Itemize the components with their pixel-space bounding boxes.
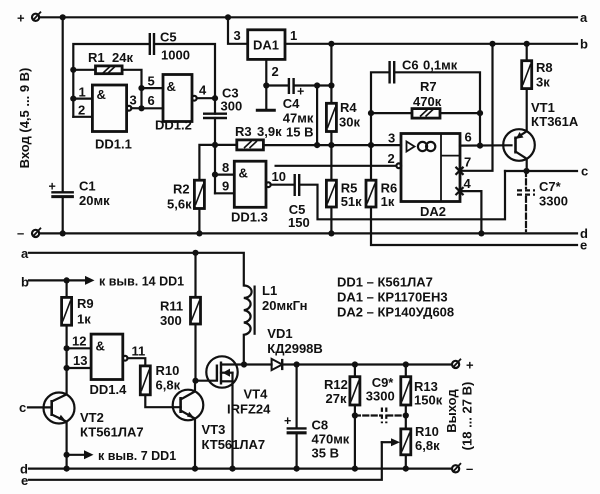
svg-text:30к: 30к — [339, 115, 360, 130]
diode VD1 KD2998V — [244, 326, 323, 370]
svg-text:КТ561ЛА7: КТ561ЛА7 — [80, 425, 144, 440]
svg-text:R10: R10 — [415, 424, 439, 439]
capacitor C1 20mk — [49, 179, 111, 209]
node rail label b (bottom left) — [21, 275, 29, 290]
wire: R9 bottom to pin12 node — [64, 325, 70, 351]
svg-text:+: + — [466, 357, 474, 372]
svg-text:R2: R2 — [173, 182, 190, 197]
wire: pin1 into DD1.1 — [73, 85, 92, 100]
svg-text:&: & — [167, 79, 176, 94]
svg-text:47мк: 47мк — [283, 111, 314, 126]
wire: L1 bottom to VT4 drain node — [241, 335, 247, 368]
wire: C5(150) right, down and across to rail c riser — [300, 171, 505, 219]
svg-text:a: a — [21, 246, 29, 261]
svg-text:к выв. 7 DD1: к выв. 7 DD1 — [98, 449, 176, 463]
svg-text:DD1.2: DD1.2 — [155, 118, 192, 133]
pin 2 input bubble of DA2 — [388, 151, 402, 168]
pin 10 output bubble of DD1.3 — [266, 169, 286, 187]
resistor R13 150k — [401, 365, 443, 408]
svg-text:C4: C4 — [283, 96, 300, 111]
svg-text:20мкГн: 20мкГн — [262, 298, 307, 313]
wire: VD1 cathode to plus output line — [282, 361, 452, 367]
svg-text:R1: R1 — [88, 50, 105, 65]
pin 11 output bubble of DD1.4 — [123, 344, 146, 361]
wire: VT3 collector up to gate node — [194, 381, 196, 392]
svg-text:C1: C1 — [79, 179, 96, 194]
wire: pin2 into DD1.1 — [73, 103, 92, 118]
wire: C4 right to divider node — [294, 82, 334, 88]
wire: R11 bottom to VT4 gate node — [192, 324, 198, 384]
svg-text:КД2998В: КД2998В — [267, 341, 323, 356]
svg-text:150: 150 — [288, 215, 310, 230]
svg-text:1: 1 — [290, 28, 297, 43]
resistor R8 3k — [522, 41, 553, 90]
svg-text:R9: R9 — [77, 296, 94, 311]
svg-text:VT2: VT2 — [80, 410, 104, 425]
svg-text:VT4: VT4 — [244, 387, 269, 402]
svg-text:VT3: VT3 — [202, 422, 226, 437]
transistor VT1 KT361A — [503, 100, 579, 161]
label output voltage — [444, 382, 475, 451]
transistor VT2 KT561LA7 — [44, 393, 144, 440]
wire: DD1.3 out to C5(150) — [271, 184, 294, 186]
svg-text:1000: 1000 — [161, 48, 190, 63]
transistor VT3 KT561LA7 — [173, 390, 265, 452]
capacitor C3 300 — [203, 86, 242, 119]
svg-text:6: 6 — [465, 130, 472, 145]
wire: DA1 pin2 down — [263, 59, 279, 88]
svg-text:27к: 27к — [326, 391, 347, 406]
svg-text:2: 2 — [388, 151, 395, 166]
svg-text:C7*: C7* — [539, 179, 562, 194]
op-amp DA2 — [401, 134, 460, 220]
node rail label d (top right) — [580, 226, 588, 241]
svg-text:9: 9 — [222, 179, 229, 194]
node junction DD1.1 pin1 — [70, 96, 76, 102]
resistor R6 1k — [366, 145, 397, 209]
pin 4 output bubble of DD1.2 — [192, 83, 207, 101]
node junction on plus rail at left bus — [60, 14, 66, 20]
svg-text:к выв. 14 DD1: к выв. 14 DD1 — [99, 275, 184, 289]
svg-text:DA1 – КР1170ЕН3: DA1 – КР1170ЕН3 — [337, 290, 448, 305]
capacitor C4 47mk 15V — [266, 78, 314, 140]
svg-text:C6: C6 — [402, 58, 419, 73]
svg-text:2: 2 — [272, 64, 279, 79]
resistor R2 5,6k — [167, 180, 204, 211]
svg-text:b: b — [580, 37, 588, 52]
svg-text:R11: R11 — [160, 299, 183, 314]
wire: VT2 emitter down — [64, 422, 70, 472]
label parts list DA1 — [337, 290, 448, 305]
wire: R10 bottom to rail d — [403, 455, 409, 472]
svg-text:DA1: DA1 — [253, 38, 279, 53]
svg-text:7: 7 — [464, 155, 471, 170]
logic gate DD1.4 — [90, 334, 128, 397]
svg-text:Выход: Выход — [444, 389, 459, 433]
wire: pin13 into DD1.4 — [64, 348, 92, 371]
svg-text:DD1.3: DD1.3 — [231, 210, 268, 225]
wire: R1 right to DD1.2 inputs — [122, 70, 141, 109]
svg-text:51к: 51к — [341, 194, 362, 209]
wire: VT2 collector up to pin13 node — [65, 368, 67, 394]
wire: pin5 into DD1.2 — [142, 74, 164, 89]
label parts list DD1 — [337, 275, 433, 290]
svg-text:Вход (4,5 ... 9 В): Вход (4,5 ... 9 В) — [17, 68, 32, 169]
svg-text:4: 4 — [464, 176, 472, 191]
svg-text:20мк: 20мк — [79, 193, 110, 208]
wire: DA2 pin7 up to rail b — [461, 41, 496, 171]
logic gate DD1.1 — [92, 85, 131, 152]
svg-text:35 В: 35 В — [312, 446, 339, 461]
svg-text:24к: 24к — [112, 50, 133, 65]
pin 3 output bubble of DD1.1 — [127, 93, 137, 111]
svg-text:R8: R8 — [536, 60, 553, 75]
svg-text:+: + — [49, 180, 56, 194]
svg-text:15 В: 15 В — [286, 125, 313, 140]
output terminal minus — [452, 461, 473, 476]
resistor R11 300 — [160, 253, 201, 328]
label parts list DA2 — [337, 305, 454, 320]
svg-text:3: 3 — [130, 93, 137, 108]
wire: C1 bottom to minus rail — [60, 197, 66, 237]
svg-text:300: 300 — [221, 99, 243, 114]
resistor R10 6,8k (trimmer) — [401, 424, 440, 455]
wire: DA2 pin2 line — [276, 165, 397, 167]
wire: R10 bottom to VT3 base — [145, 395, 180, 407]
node rail label b (top right) — [580, 37, 588, 52]
wire: plus rail a (top) — [39, 16, 577, 18]
node rail label e (top right) — [580, 238, 587, 253]
svg-text:DA2 – КР140УД608: DA2 – КР140УД608 — [337, 305, 454, 320]
wire: gate node to VT4 gate — [196, 380, 217, 382]
resistor R3 3,9k — [215, 124, 282, 150]
label input voltage — [17, 68, 32, 169]
regulator DA1 — [248, 30, 285, 60]
node rail label e (bottom left) — [21, 473, 28, 488]
wire: rail c (top) — [505, 168, 577, 174]
wire: pin9 into DD1.3 — [215, 179, 234, 194]
svg-text:R3: R3 — [235, 124, 252, 139]
svg-text:3: 3 — [234, 28, 241, 43]
svg-text:1к: 1к — [77, 312, 91, 327]
svg-text:10: 10 — [272, 169, 286, 184]
resistor R4 30k — [326, 86, 360, 132]
svg-text:11: 11 — [132, 344, 146, 359]
svg-text:c: c — [19, 400, 26, 415]
wire: DD1.4 out to R10 top — [128, 358, 146, 366]
svg-text:R12: R12 — [324, 377, 348, 392]
transistor VT4 IRFZ24 — [206, 356, 271, 416]
wire: C3 bottom to R3/R2 node — [212, 118, 218, 148]
inductor L1 20mkGn — [244, 283, 308, 335]
capacitor C5 150 — [288, 174, 310, 230]
svg-text:(18 ... 27 В): (18 ... 27 В) — [460, 382, 475, 451]
wire: DD1.2 out to C3 node — [197, 95, 218, 101]
wire: C6 loop right vertical — [395, 72, 483, 148]
svg-text:a: a — [580, 10, 588, 25]
svg-text:DD1.1: DD1.1 — [95, 137, 132, 152]
svg-text:&: & — [96, 339, 105, 354]
ground common bar below DA1 — [256, 86, 276, 111]
node junction on plus rail at DA1 pin3 drop — [225, 14, 231, 20]
wire: VT4 source to rail d — [229, 373, 235, 472]
wire: C6 loop left vertical — [368, 72, 389, 148]
resistor R1 24k — [73, 50, 133, 74]
svg-text:470к: 470к — [413, 94, 442, 109]
input terminal minus — [17, 226, 41, 241]
node pin3 label of DA2 — [388, 131, 395, 146]
node rail label d (bottom left) — [20, 462, 28, 477]
svg-text:470мк: 470мк — [312, 432, 350, 447]
svg-text:e: e — [21, 473, 28, 488]
pin 7 cross of DA2 — [456, 155, 472, 175]
svg-text:R10: R10 — [156, 363, 180, 378]
svg-text:DA2: DA2 — [420, 204, 446, 219]
wire: rail d (bottom) — [29, 468, 452, 470]
wire: R4 bottom to pin3 rail — [328, 132, 334, 149]
input terminal plus — [17, 10, 41, 25]
wire: rail a (bottom) to L1 — [29, 250, 244, 286]
wire: R3 right to DA2 pin3 rail — [263, 144, 401, 146]
svg-text:0,1мк: 0,1мк — [423, 58, 458, 73]
svg-text:1: 1 — [79, 85, 86, 100]
pin 4 cross of DA2 — [456, 176, 472, 195]
svg-text:R7: R7 — [420, 79, 437, 94]
svg-text:5: 5 — [148, 74, 155, 89]
capacitor C6 0,1mk — [390, 58, 458, 84]
svg-text:5,6к: 5,6к — [167, 197, 192, 212]
svg-text:4: 4 — [199, 83, 207, 98]
wire: C5 feedback loop left — [73, 44, 148, 117]
arrow to pin 7 DD1 — [67, 449, 177, 463]
node rail label a (bottom left) — [21, 246, 29, 261]
svg-text:–: – — [466, 461, 473, 476]
logic gate DD1.3 — [231, 161, 268, 224]
wire: rail b (bottom) — [29, 277, 85, 283]
arrow to pin 14 DD1 — [85, 275, 184, 289]
svg-text:&: & — [239, 166, 248, 181]
svg-text:&: & — [97, 87, 106, 102]
wire: rail e (bottom) to R10 wiper — [29, 442, 382, 480]
svg-text:e: e — [580, 238, 587, 253]
svg-text:12: 12 — [72, 334, 86, 349]
capacitor C9* 3300 (dashed) — [355, 375, 406, 423]
wire: R8 bottom to VT1 emitter — [526, 89, 528, 132]
svg-text:c: c — [581, 164, 588, 179]
wire: R5 bottom to minus rail — [328, 207, 334, 236]
output terminal plus — [452, 357, 474, 372]
node rail label c (top right) — [581, 164, 588, 179]
wire: pins 8/9 link from C3 node — [212, 145, 218, 193]
svg-text:13: 13 — [73, 353, 87, 368]
wire: rail b drop to R4 — [328, 41, 334, 86]
resistor R7 470k — [371, 79, 480, 118]
wire: DA1 pin1 output into rail b — [285, 28, 577, 44]
svg-text:L1: L1 — [262, 283, 277, 298]
svg-text:1к: 1к — [381, 194, 395, 209]
svg-text:300: 300 — [160, 313, 182, 328]
capacitor C7* 3300 (dashed) — [517, 171, 568, 231]
resistor R5 51k — [326, 145, 362, 209]
wire: divider node down to pin3 rail — [314, 86, 320, 149]
arrow wiper into R10 — [382, 438, 400, 446]
resistor R10 6,8k (gate) — [140, 363, 180, 395]
svg-text:6: 6 — [148, 93, 155, 108]
wire: DA2 pin6 output to VT1 base — [460, 130, 512, 146]
wire: R2 top link — [199, 145, 215, 180]
svg-text:КТ361А: КТ361А — [531, 114, 579, 129]
svg-text:C8: C8 — [312, 418, 329, 433]
svg-text:3,9к: 3,9к — [257, 124, 282, 139]
wire: VT3 emitter to rail d — [192, 419, 198, 472]
svg-text:b: b — [21, 275, 29, 290]
svg-text:DD1.4: DD1.4 — [90, 382, 128, 397]
resistor R9 1k — [62, 280, 94, 326]
svg-text:+: + — [17, 10, 25, 25]
svg-text:R4: R4 — [340, 100, 357, 115]
capacitor C5 1000 — [150, 30, 190, 63]
svg-text:C5: C5 — [160, 30, 177, 45]
resistor R12 27k — [324, 365, 360, 407]
wire: DD1.1 out to DD1.2 in — [131, 85, 144, 111]
wire: pin12 into DD1.4 — [67, 334, 92, 349]
wire: R6 bottom to rail e — [371, 207, 577, 245]
svg-text:3300: 3300 — [539, 194, 568, 209]
svg-text:3: 3 — [388, 131, 395, 146]
svg-text:–: – — [17, 226, 24, 241]
svg-text:8: 8 — [222, 160, 229, 175]
svg-text:VD1: VD1 — [267, 326, 292, 341]
wire: R12 bottom to rail d — [352, 405, 358, 472]
svg-text:6,8к: 6,8к — [156, 378, 181, 393]
svg-text:3к: 3к — [536, 75, 550, 90]
node junction R1 left — [70, 67, 76, 73]
node rail label a (top right) — [580, 10, 588, 25]
node rail label c (bottom left) — [19, 400, 26, 415]
wire: R2 bottom to minus rail — [196, 209, 202, 237]
svg-text:3300: 3300 — [366, 389, 395, 404]
wire: DA1 pin3 drop from plus rail — [228, 17, 248, 44]
wire: pin8 into DD1.3 — [215, 160, 234, 175]
wire: VT1 collector to rail c — [526, 159, 528, 171]
svg-text:IRFZ24: IRFZ24 — [227, 402, 271, 417]
wire: minus rail d (top) — [39, 232, 577, 234]
capacitor C8 470mk 35V — [284, 365, 350, 472]
svg-text:6,8к: 6,8к — [415, 438, 440, 453]
wire: R13 bottom to R10 top — [403, 405, 409, 429]
wire: rail c (bottom) to VT2 base — [28, 406, 52, 408]
wire: C5 loop right to DD1.2 output — [156, 44, 215, 98]
svg-text:VT1: VT1 — [531, 100, 555, 115]
svg-text:150к: 150к — [414, 393, 443, 408]
wire: left bus down to C1 — [62, 17, 64, 192]
svg-text:DD1 – К561ЛА7: DD1 – К561ЛА7 — [337, 275, 433, 290]
wire: pin6 into DD1.2 — [142, 93, 164, 108]
wire: DA2 pin4 down to minus rail — [461, 191, 485, 236]
svg-text:2: 2 — [78, 103, 85, 118]
svg-text:+: + — [284, 414, 291, 428]
logic gate DD1.2 — [155, 75, 192, 133]
